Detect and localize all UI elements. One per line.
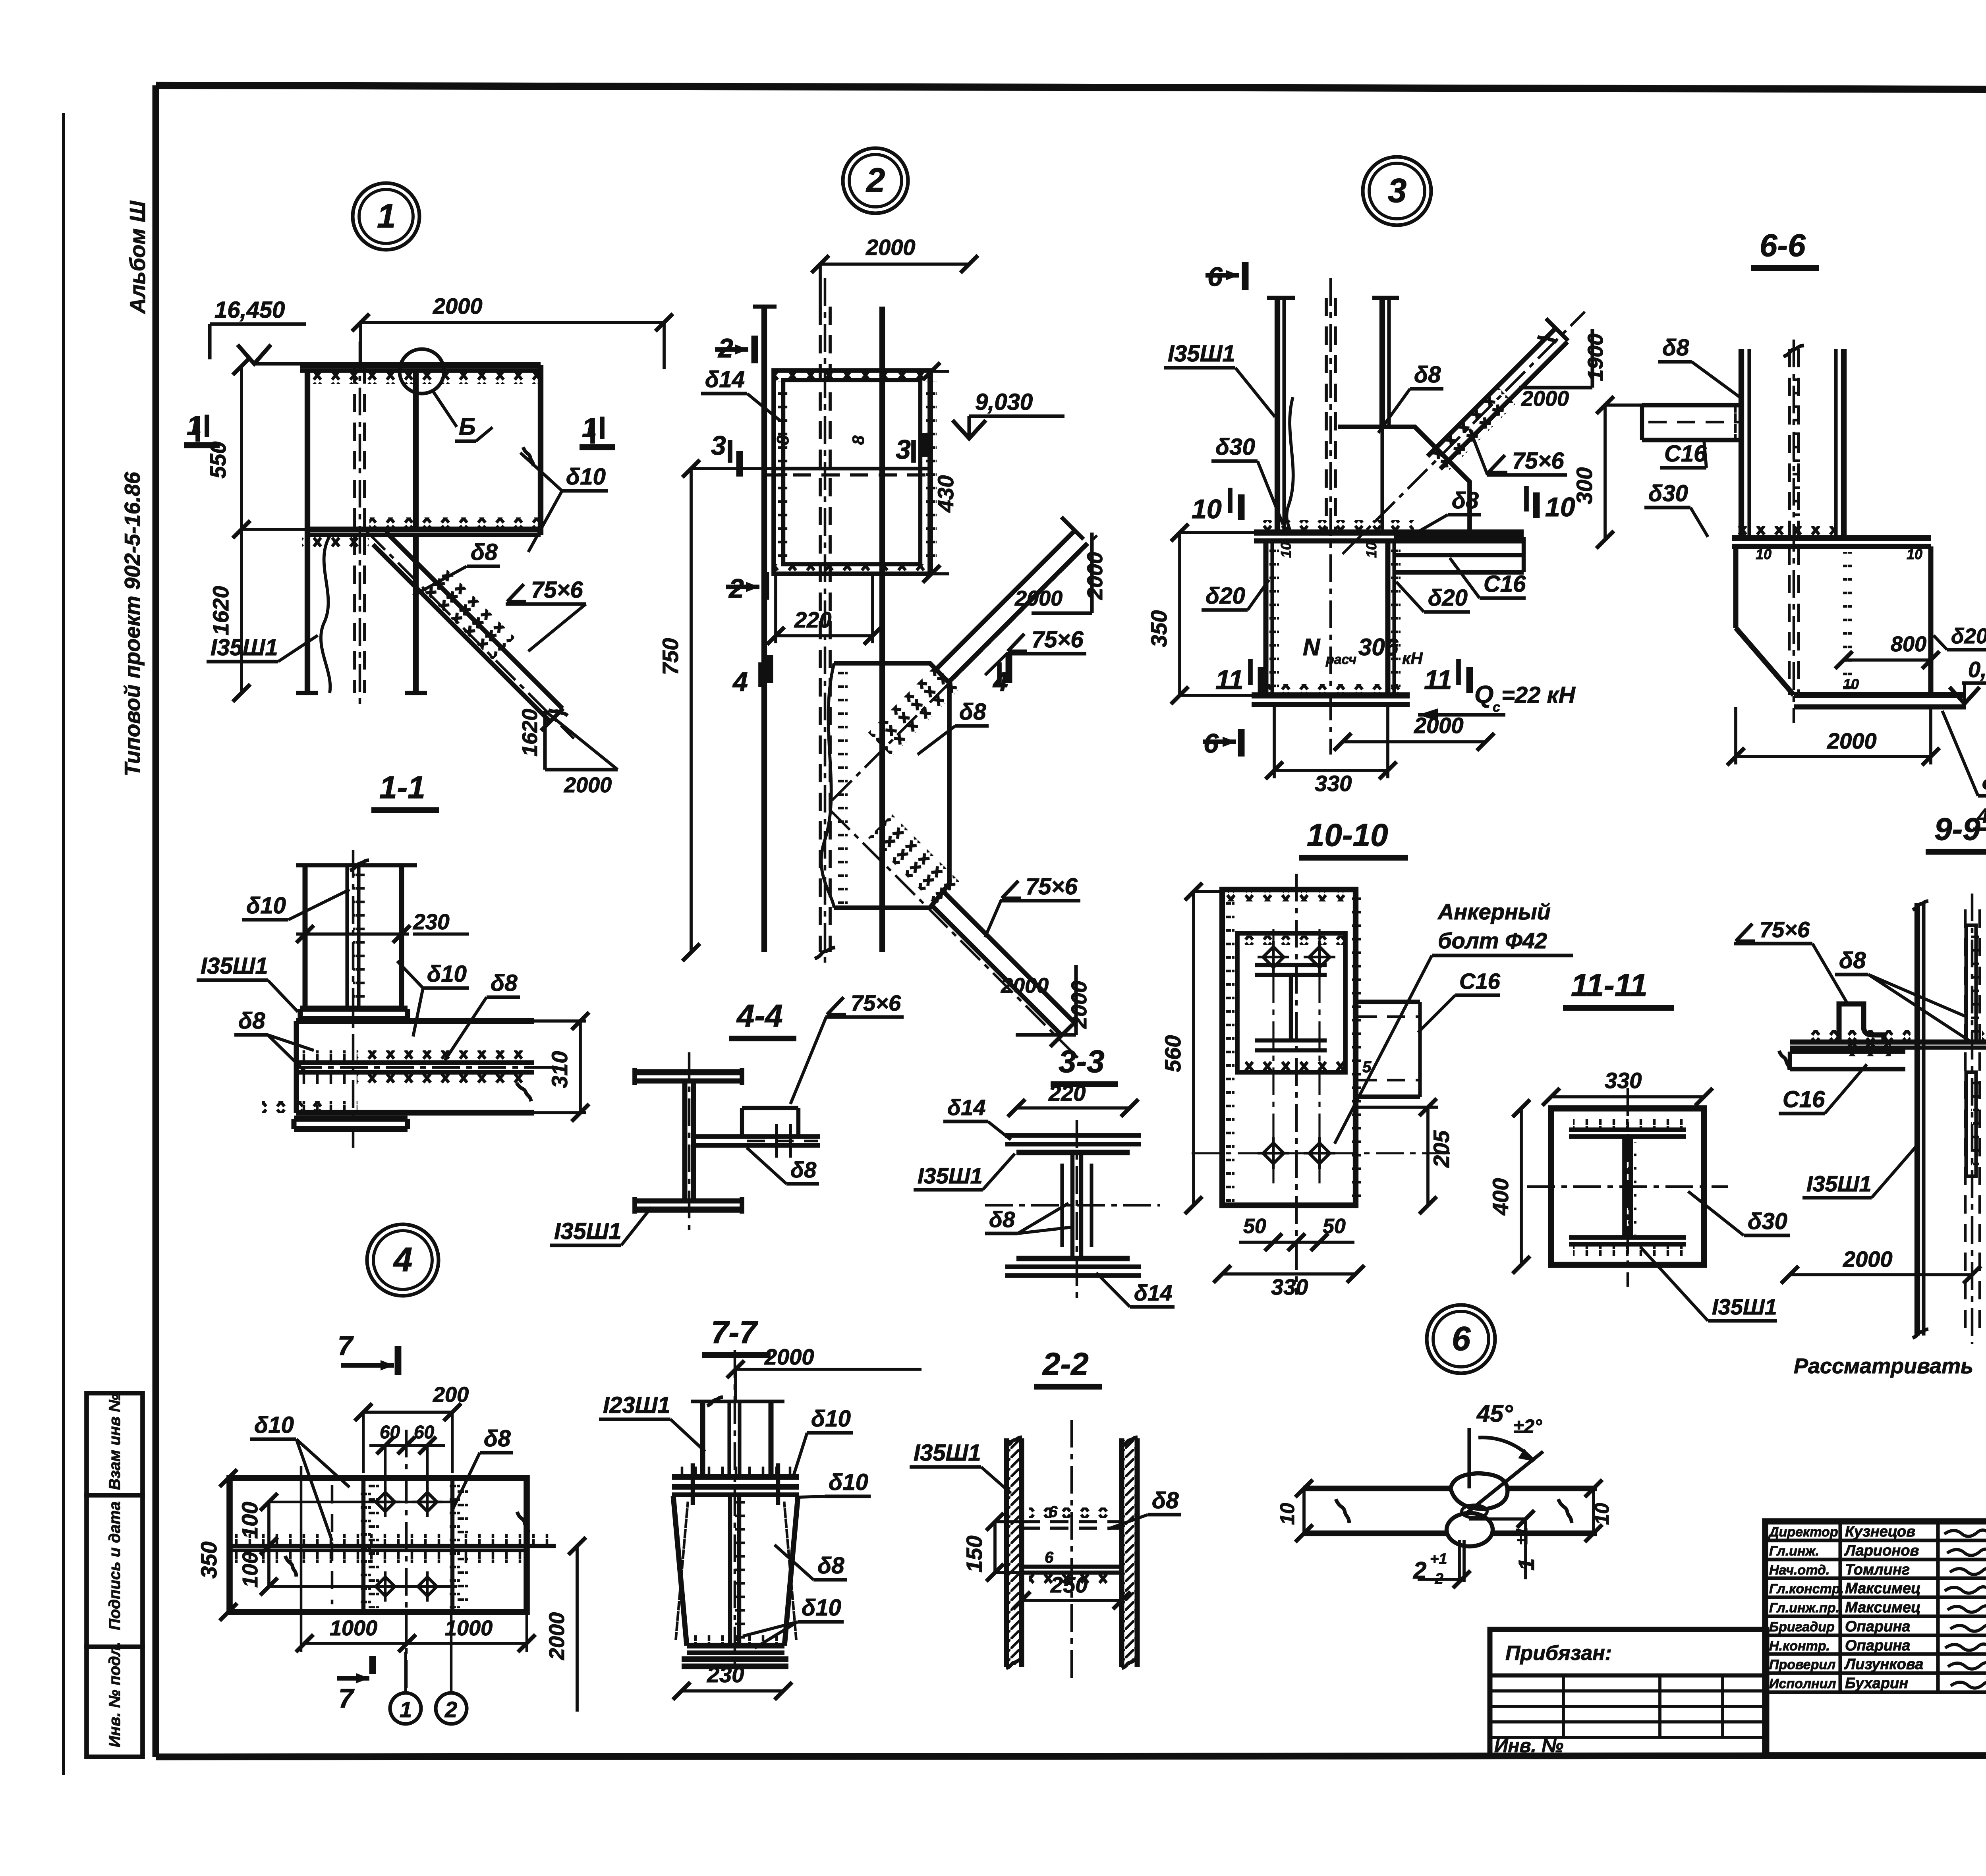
svg-text:400: 400 <box>1488 1178 1513 1216</box>
section 1-1 beam body <box>296 1018 534 1024</box>
svg-text:45°: 45° <box>1476 1400 1513 1427</box>
svg-text:550: 550 <box>205 442 230 479</box>
svg-text:2: 2 <box>444 1697 457 1722</box>
node 1 dims 550 1620 <box>240 366 243 529</box>
section 4-4 I-beam <box>635 1069 742 1075</box>
svg-text:I23Ш1: I23Ш1 <box>603 1392 670 1418</box>
svg-text:δ10: δ10 <box>811 1406 851 1432</box>
node 3 right beam C16 <box>1394 535 1524 540</box>
svg-text:100: 100 <box>238 1552 262 1588</box>
svg-text:6: 6 <box>1045 1549 1054 1566</box>
svg-text:δ10: δ10 <box>566 464 606 490</box>
node 4 base plate plan <box>230 1478 527 1612</box>
node 1 wavy cut line <box>321 536 330 693</box>
10-10 inner column box <box>1237 933 1345 1072</box>
node 2 column <box>761 307 767 952</box>
svg-text:1-1: 1-1 <box>379 770 425 805</box>
svg-text:75×6: 75×6 <box>1760 917 1810 942</box>
9-9 angle on top <box>1839 1004 1884 1042</box>
svg-text:N: N <box>1303 634 1321 660</box>
node 4 callout circle <box>367 1224 439 1296</box>
node 2 labels <box>1008 634 1024 651</box>
svg-text:δ14: δ14 <box>947 1095 985 1120</box>
svg-text:С16: С16 <box>1484 571 1526 597</box>
svg-text:10: 10 <box>1843 676 1859 692</box>
svg-text:2000: 2000 <box>564 773 612 797</box>
svg-text:16,450: 16,450 <box>214 297 285 323</box>
svg-text:Б: Б <box>459 413 475 440</box>
svg-text:10-10: 10-10 <box>1307 817 1388 853</box>
svg-text:200: 200 <box>433 1383 469 1407</box>
svg-text:δ8: δ8 <box>1452 488 1479 513</box>
section 3-3 I-beam with plates <box>1005 1133 1141 1138</box>
svg-text:Максимец: Максимец <box>1845 1599 1921 1616</box>
svg-text:δ8: δ8 <box>959 699 986 725</box>
svg-text:2000: 2000 <box>1014 587 1063 610</box>
node 4 anchor bolts <box>376 1492 395 1511</box>
section 4-4 plate and angle <box>694 1134 820 1139</box>
svg-text:7: 7 <box>338 1683 355 1714</box>
node 3 pedestal bottom plate <box>1252 692 1410 699</box>
svg-text:Ларионов: Ларионов <box>1844 1542 1919 1559</box>
node 1 top beam <box>300 362 541 368</box>
svg-text:δ30: δ30 <box>1748 1208 1787 1234</box>
svg-text:кН: кН <box>1402 649 1423 668</box>
svg-text:δ8: δ8 <box>1662 335 1689 361</box>
node 2 gusset box with welds <box>774 371 930 574</box>
svg-text:9-9: 9-9 <box>1934 811 1980 847</box>
svg-text:I35Ш1: I35Ш1 <box>201 953 268 979</box>
svg-text:расч: расч <box>1325 652 1356 667</box>
svg-text:Гл.инж.пр.: Гл.инж.пр. <box>1769 1600 1839 1615</box>
node 2 callout circle <box>843 148 908 213</box>
svg-text:I35Ш1: I35Ш1 <box>1806 1171 1872 1196</box>
svg-text:Н.контр.: Н.контр. <box>1769 1639 1830 1654</box>
svg-text:75×6: 75×6 <box>1032 627 1084 652</box>
svg-text:10: 10 <box>1363 542 1379 558</box>
node 4 mid beam line <box>230 1544 556 1548</box>
svg-text:Кузнецов: Кузнецов <box>1845 1523 1915 1540</box>
node 2 lower brace <box>931 905 1062 1036</box>
svg-text:2000: 2000 <box>865 235 916 260</box>
svg-text:-2: -2 <box>1430 1571 1443 1587</box>
svg-text:7: 7 <box>338 1331 354 1361</box>
svg-text:3: 3 <box>1388 172 1406 210</box>
svg-text:4-4: 4-4 <box>736 998 783 1033</box>
7-7 column stub I23Sh1 <box>700 1401 705 1477</box>
svg-text:δ14: δ14 <box>705 367 745 392</box>
6-6 pedestal <box>1733 546 1739 628</box>
2-2 flanges <box>1004 1438 1009 1667</box>
svg-text:8: 8 <box>773 435 792 445</box>
svg-text:300: 300 <box>1572 467 1597 504</box>
svg-text:Типовой проект 902-5-16.86: Типовой проект 902-5-16.86 <box>120 472 145 776</box>
node 2 lower gusset plate <box>834 663 949 908</box>
svg-text:8: 8 <box>849 435 867 445</box>
svg-text:2000: 2000 <box>1001 974 1049 998</box>
node 2 dim 2000 top <box>820 262 969 266</box>
svg-text:1000: 1000 <box>330 1616 377 1640</box>
svg-text:δ8: δ8 <box>989 1207 1015 1232</box>
svg-text:δ8: δ8 <box>471 539 498 565</box>
svg-text:330: 330 <box>1271 1274 1308 1299</box>
left sidebar boxes <box>87 1393 143 1495</box>
weld detail dims <box>1302 1488 1306 1533</box>
svg-text:δ10: δ10 <box>246 893 286 919</box>
svg-text:Лизункова: Лизункова <box>1844 1656 1923 1673</box>
svg-text:Директор: Директор <box>1768 1525 1838 1540</box>
section 3-3 dim 220 <box>1016 1106 1130 1110</box>
svg-text:11: 11 <box>1424 665 1452 695</box>
svg-text:Инв. № подл.: Инв. № подл. <box>106 1642 124 1747</box>
svg-text:2000: 2000 <box>1083 552 1107 600</box>
svg-text:I35Ш1: I35Ш1 <box>1168 341 1235 367</box>
node 1 B callout circle <box>400 349 444 394</box>
svg-text:Опарина: Опарина <box>1845 1618 1910 1635</box>
11-11 dims/labels <box>1520 1108 1523 1265</box>
svg-text:I35Ш1: I35Ш1 <box>211 635 278 660</box>
svg-text:3: 3 <box>711 430 726 461</box>
6-6 pedestal bottom plate <box>1794 692 1966 698</box>
node 1 slope triangle 1620/2000 <box>543 711 547 770</box>
svg-text:2000: 2000 <box>545 1612 569 1660</box>
svg-text:50: 50 <box>1243 1215 1266 1238</box>
svg-text:2000: 2000 <box>433 293 483 318</box>
node 2 box mid section line 3-3 <box>774 467 930 470</box>
node 3 column <box>1275 298 1280 533</box>
weld detail bead <box>1451 1473 1507 1509</box>
svg-text:10: 10 <box>1756 546 1772 562</box>
svg-text:75×6: 75×6 <box>851 990 901 1015</box>
7-7 top plate <box>672 1474 799 1480</box>
svg-text:310: 310 <box>547 1051 572 1088</box>
svg-text:±2°: ±2° <box>1513 1416 1542 1437</box>
svg-text:Альбом Ш: Альбом Ш <box>125 201 150 315</box>
svg-text:560: 560 <box>1160 1035 1185 1072</box>
svg-text:±1: ±1 <box>1513 1527 1531 1545</box>
node 1 callout circle <box>353 183 419 250</box>
node 1 dim 2000 top <box>361 321 664 324</box>
svg-text:750: 750 <box>658 638 683 675</box>
svg-text:10: 10 <box>1278 542 1294 558</box>
svg-text:Подпись и дата: Подпись и дата <box>106 1502 124 1630</box>
svg-text:230: 230 <box>413 909 450 934</box>
svg-text:1620: 1620 <box>208 586 233 635</box>
svg-text:Проверил: Проверил <box>1769 1657 1835 1672</box>
node 2 upper slope triangle <box>1090 533 1093 613</box>
section 1-1 column top <box>296 863 417 867</box>
section 1-1 dim 230 <box>296 932 409 936</box>
svg-text:75×6: 75×6 <box>1026 874 1078 899</box>
svg-text:2000: 2000 <box>1827 728 1877 753</box>
node 3 gusset <box>1338 427 1470 533</box>
svg-text:δ30: δ30 <box>1982 769 1986 794</box>
svg-text:150: 150 <box>962 1536 987 1573</box>
2-2 mid plate <box>1022 1520 1122 1523</box>
6-6 C16 stub left <box>1642 403 1741 407</box>
node 1 diagonal brace L75x6 <box>373 544 550 721</box>
svg-text:Анкерный: Анкерный <box>1437 899 1551 924</box>
svg-text:10: 10 <box>1591 1503 1613 1525</box>
svg-text:250: 250 <box>1050 1572 1088 1597</box>
svg-text:Исполнил: Исполнил <box>1769 1676 1836 1691</box>
svg-text:75×6: 75×6 <box>531 577 583 603</box>
svg-text:Q: Q <box>1474 681 1493 708</box>
svg-text:1: 1 <box>377 197 396 235</box>
svg-text:100: 100 <box>237 1502 262 1539</box>
svg-text:350: 350 <box>196 1542 221 1579</box>
svg-text:Нач.отд.: Нач.отд. <box>1769 1563 1830 1578</box>
svg-text:1620: 1620 <box>518 709 542 757</box>
svg-text:6-6: 6-6 <box>1760 228 1806 263</box>
svg-text:Максимец: Максимец <box>1845 1580 1921 1597</box>
node 2 dim 430 <box>930 371 933 574</box>
node 3 dim 2000 and 330 bottom <box>1343 740 1486 743</box>
svg-text:800: 800 <box>1891 632 1926 656</box>
node 2 upper brace <box>949 543 1088 682</box>
2-2 dims <box>993 1522 997 1573</box>
weld detail plates <box>1303 1486 1452 1491</box>
svg-text:350: 350 <box>1146 610 1171 647</box>
svg-text:δ30: δ30 <box>1215 434 1255 460</box>
svg-text:δ20: δ20 <box>1428 585 1468 611</box>
svg-text:Инв. №: Инв. № <box>1494 1735 1563 1756</box>
svg-text:11-11: 11-11 <box>1571 967 1648 1003</box>
svg-text:δ8: δ8 <box>1839 948 1866 973</box>
svg-text:δ14: δ14 <box>1134 1280 1172 1305</box>
node 3 brace <box>1440 342 1567 469</box>
svg-text:С16: С16 <box>1664 441 1707 467</box>
7-7 bottom plates <box>687 1643 784 1648</box>
section 4-4 labels <box>827 997 844 1015</box>
9-9 beam crossing <box>1790 1040 1986 1045</box>
svg-text:c: c <box>1493 700 1500 715</box>
svg-text:δ8: δ8 <box>484 1426 511 1451</box>
node 4 column grid bubbles <box>390 1693 421 1724</box>
svg-text:4: 4 <box>732 667 748 697</box>
svg-text:2000: 2000 <box>1521 387 1569 411</box>
svg-text:Гл.констр.: Гл.констр. <box>1769 1581 1844 1596</box>
svg-text:Бригадир: Бригадир <box>1769 1619 1835 1635</box>
svg-text:430: 430 <box>933 475 958 513</box>
svg-text:75×6: 75×6 <box>1512 448 1564 474</box>
svg-text:2-2: 2-2 <box>1042 1346 1089 1382</box>
svg-text:3: 3 <box>896 434 911 465</box>
svg-text:δ10: δ10 <box>254 1412 294 1438</box>
11-11 dim 330 top <box>1551 1095 1704 1098</box>
svg-text:10: 10 <box>1545 492 1575 522</box>
svg-text:Опарина: Опарина <box>1845 1637 1910 1654</box>
svg-text:10: 10 <box>1192 494 1222 524</box>
7-7 dim 230 <box>682 1689 783 1693</box>
node 2 dim 220 <box>776 634 873 637</box>
9-9 column <box>1915 903 1920 1336</box>
svg-text:Бухарин: Бухарин <box>1845 1675 1908 1692</box>
title block signatures <box>1944 1530 1986 1536</box>
svg-text:I35Ш1: I35Ш1 <box>914 1440 981 1466</box>
svg-text:δ8: δ8 <box>817 1553 844 1579</box>
svg-text:10: 10 <box>1276 1503 1298 1525</box>
svg-text:δ10: δ10 <box>802 1595 841 1621</box>
svg-text:δ8: δ8 <box>790 1157 817 1182</box>
svg-text:2: 2 <box>1413 1557 1426 1584</box>
svg-text:С16: С16 <box>1459 969 1501 994</box>
6-6 column <box>1739 349 1744 538</box>
svg-text:1: 1 <box>400 1697 412 1722</box>
svg-text:2: 2 <box>865 162 885 199</box>
svg-text:330: 330 <box>1315 771 1352 796</box>
svg-text:Томлинг: Томлинг <box>1845 1561 1910 1578</box>
svg-text:330: 330 <box>1605 1068 1642 1093</box>
section 1-1 bottom flange plate <box>294 1116 408 1122</box>
svg-text:3-3: 3-3 <box>1059 1044 1105 1079</box>
svg-text:7-7: 7-7 <box>711 1314 758 1350</box>
svg-text:+1: +1 <box>1430 1551 1447 1567</box>
pributers block left <box>1490 1629 1767 1755</box>
svg-text:1: 1 <box>1514 1558 1539 1571</box>
svg-text:Гл.инж.: Гл.инж. <box>1769 1544 1819 1559</box>
svg-text:δ8: δ8 <box>1152 1488 1179 1513</box>
svg-text:болт Ф42: болт Ф42 <box>1438 928 1547 953</box>
svg-text:11: 11 <box>1215 665 1244 695</box>
node 4 dim 2000 right <box>576 1546 579 1712</box>
10-10 C16 stub right <box>1356 1000 1420 1004</box>
svg-text:δ8: δ8 <box>491 970 518 996</box>
callout circle 6 <box>1427 1305 1495 1373</box>
svg-text:Рассматривать: Рассматривать <box>1794 1354 1973 1378</box>
11-11 I-beam inside <box>1569 1127 1686 1132</box>
node 4 dims bottom <box>305 1642 527 1645</box>
svg-text:δ20: δ20 <box>1951 624 1986 648</box>
sheet frame <box>62 113 65 1775</box>
svg-text:2000: 2000 <box>1843 1247 1893 1272</box>
svg-text:δ8: δ8 <box>238 1008 265 1034</box>
svg-text:δ10: δ10 <box>829 1469 868 1495</box>
9-9 labels <box>1736 924 1752 941</box>
svg-text:9,030: 9,030 <box>975 389 1033 415</box>
10-10 anchor bolts <box>1263 947 1284 967</box>
svg-text:Прибязан:: Прибязан: <box>1505 1642 1612 1665</box>
node 4 dims left <box>227 1478 230 1612</box>
svg-text:2000: 2000 <box>764 1344 814 1369</box>
svg-text:δ10: δ10 <box>427 961 467 987</box>
svg-text:220: 220 <box>794 607 831 632</box>
svg-text:306: 306 <box>1358 634 1399 660</box>
svg-text:I35Ш1: I35Ш1 <box>1712 1294 1777 1319</box>
7-7 trapezoid body <box>673 1496 687 1646</box>
6-6 base plate <box>1732 535 1931 541</box>
node 2 dim 750 <box>690 469 693 952</box>
node 3 callout circle <box>1363 157 1431 225</box>
node 2 lower slope triangle <box>1076 965 1076 1035</box>
9-9 web strips <box>1966 925 1976 1041</box>
node 3 slope triangle 1900/2000 <box>1590 329 1594 388</box>
section 1-1 dim 310 <box>579 1021 582 1113</box>
svg-text:Взам инв №: Взам инв № <box>106 1394 124 1490</box>
node 3 base top plate <box>1254 529 1524 536</box>
title block staff table <box>1765 1521 1986 1755</box>
11-11 outer square <box>1551 1108 1704 1265</box>
node 4 centerlines <box>405 1430 408 1688</box>
svg-text:2000: 2000 <box>1414 713 1464 738</box>
section 1-1 flange plate <box>300 1006 408 1012</box>
node 3 pedestal <box>1263 541 1269 695</box>
svg-text:10: 10 <box>1907 546 1922 562</box>
svg-text:220: 220 <box>1048 1081 1086 1106</box>
svg-text:С16: С16 <box>1783 1087 1825 1112</box>
node 1 column I35Sh1 <box>305 371 310 693</box>
svg-text:230: 230 <box>707 1662 744 1687</box>
svg-text:205: 205 <box>1429 1130 1454 1168</box>
svg-text:δ30: δ30 <box>1648 481 1688 506</box>
node 1 mid beam <box>306 527 541 532</box>
10-10 outer plate <box>1222 890 1356 1205</box>
svg-text:δ8: δ8 <box>1414 362 1441 388</box>
svg-text:I35Ш1: I35Ш1 <box>918 1163 983 1188</box>
9-9 plate below <box>1790 1049 1905 1054</box>
svg-text:1900: 1900 <box>1584 334 1607 381</box>
svg-text:6: 6 <box>1452 1320 1471 1358</box>
svg-text:I35Ш1: I35Ш1 <box>554 1218 622 1244</box>
svg-text:2000: 2000 <box>1067 981 1091 1029</box>
svg-text:=22 кН: =22 кН <box>1501 682 1576 708</box>
svg-text:δ20: δ20 <box>1206 583 1245 609</box>
svg-text:4: 4 <box>393 1241 412 1279</box>
10-10 dims <box>1192 892 1195 1205</box>
svg-text:0,000: 0,000 <box>1968 657 1986 682</box>
node 4 web verticals <box>361 1478 365 1612</box>
svg-text:6: 6 <box>1049 1503 1058 1521</box>
7-7 inner web <box>728 1496 732 1646</box>
